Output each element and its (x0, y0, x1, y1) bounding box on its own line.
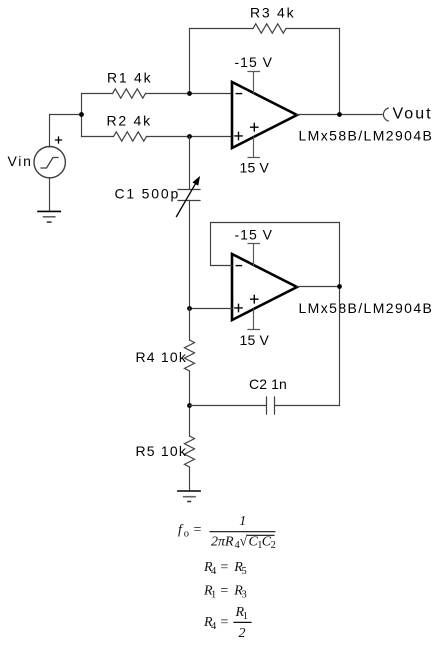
op-amp U1 non-inverting input mark (235, 132, 242, 139)
svg-text:√: √ (240, 534, 248, 549)
resistor R3 (253, 24, 286, 33)
power pin U2 negative supply (248, 244, 260, 266)
capacitor C1 plates (178, 190, 200, 201)
svg-text:-15 V: -15 V (235, 227, 273, 243)
wire U2 non-inverting input (190, 308, 233, 310)
node U2 non-inverting junction (187, 306, 192, 311)
op-amp U2 non-inverting input mark (235, 304, 242, 311)
connector Vout open terminal (383, 108, 388, 121)
wire U2 feedback loop (211, 223, 340, 406)
wire node to R4 (189, 309, 191, 341)
svg-text:2: 2 (239, 626, 246, 641)
wire U2 output (297, 286, 340, 288)
op-amp U2 triangle (232, 254, 297, 320)
svg-text:C2 1n: C2 1n (249, 376, 287, 392)
svg-text:LMx58B/LM2904B: LMx58B/LM2904B (299, 300, 432, 316)
power pin U1 positive supply (248, 137, 260, 157)
resistor R4 (185, 340, 195, 371)
svg-text:LMx58B/LM2904B: LMx58B/LM2904B (299, 128, 432, 144)
equation R4 equals R1 over 2 (203, 605, 251, 641)
source Vin (34, 147, 65, 178)
op-amp U2 inverting input mark (236, 265, 241, 267)
capacitor C2 plates (267, 397, 275, 414)
wire C1 top lead (189, 137, 191, 309)
svg-text:Vout: Vout (393, 106, 432, 123)
svg-text:R4 10k: R4 10k (136, 349, 188, 365)
svg-text:R1=R3: R1=R3 (203, 584, 247, 601)
op-amp U1 positive supply mark (251, 124, 258, 131)
op-amp U2 positive supply mark (251, 296, 258, 303)
node R2 C1 junction (187, 134, 192, 139)
power pin U1 negative supply (248, 72, 260, 94)
svg-text:2: 2 (271, 540, 276, 551)
svg-text:-15 V: -15 V (235, 54, 273, 70)
wire U1 output (297, 114, 382, 116)
wire Vin to ground (49, 178, 51, 212)
node R1 R3 junction (187, 91, 192, 96)
svg-text:R1: R1 (235, 605, 248, 622)
resistor R2 (114, 132, 147, 141)
wire R1 rail (82, 93, 233, 95)
wire R4 to C2 node (189, 371, 191, 436)
op-amp U1 triangle (232, 82, 297, 148)
node U1 output junction (337, 112, 342, 117)
svg-text:R4=R5: R4=R5 (203, 560, 247, 577)
source Vin waveform (41, 158, 58, 169)
svg-text:C1 500p: C1 500p (115, 185, 181, 201)
svg-text:Vin: Vin (8, 153, 33, 169)
svg-text:2πR: 2πR (211, 534, 234, 549)
ground below R5 (178, 491, 200, 502)
svg-text:=: = (193, 523, 202, 538)
wire C2 left lead (190, 405, 266, 407)
capacitor C1 variable arrow (177, 184, 196, 217)
wire R3 loop right drop to output (339, 29, 341, 115)
equation R1 equals R3 (203, 584, 247, 601)
wire R5 to ground (189, 467, 191, 491)
power pin U2 positive supply (248, 309, 260, 329)
wire R3 feedback loop top (190, 28, 340, 30)
node input junction (79, 112, 84, 117)
svg-text:R5 10k: R5 10k (136, 443, 188, 459)
node U2 output junction (337, 284, 342, 289)
svg-text:R2 4k: R2 4k (107, 113, 152, 129)
equation fo formula (178, 514, 276, 551)
source Vin plus sign (56, 137, 62, 143)
svg-text:15 V: 15 V (240, 160, 270, 176)
wire Vin to input node (50, 94, 82, 148)
svg-text:R4=: R4= (203, 615, 229, 632)
node R4 R5 C2 junction (187, 403, 192, 408)
svg-text:1: 1 (239, 514, 246, 529)
equation R4 equals R5 (203, 560, 247, 577)
svg-text:R1 4k: R1 4k (107, 70, 152, 86)
wire C2 right lead (275, 405, 339, 407)
svg-text:o: o (184, 528, 189, 539)
wire R2 rail (82, 136, 233, 138)
resistor R1 (113, 89, 146, 98)
svg-text:15 V: 15 V (240, 332, 270, 348)
ground below Vin (38, 211, 60, 222)
resistor R5 (185, 436, 195, 467)
op-amp U1 inverting input mark (236, 93, 241, 95)
wire R3 loop left drop to inverting input (189, 29, 191, 94)
svg-text:R3 4k: R3 4k (250, 5, 295, 21)
